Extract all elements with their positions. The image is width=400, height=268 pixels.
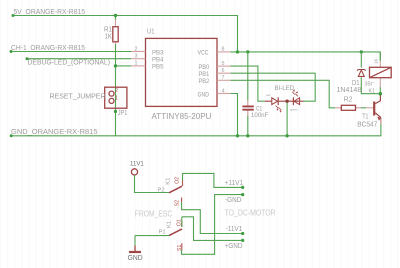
svg-text:green: green <box>290 107 298 111</box>
op-amp U1 ATTINY85-20PU box <box>146 38 218 106</box>
wire S1 to -GND <box>182 195 243 255</box>
transistor T1 BC547 <box>366 95 381 124</box>
svg-text:8: 8 <box>222 47 225 53</box>
svg-text:3: 3 <box>135 54 138 60</box>
wire GND to P1 pole <box>135 236 169 246</box>
wire PB0 to BI-LED left <box>231 66 265 101</box>
svg-text:CH-1_ORANG-RX-R815: CH-1_ORANG-RX-R815 <box>11 43 85 52</box>
resistor R2 <box>335 105 360 110</box>
node CH-1 start dot <box>10 50 13 53</box>
svg-text:O1: O1 <box>176 219 182 226</box>
node DEBUG start dot <box>26 57 29 60</box>
pin 5 PB0 stub <box>217 65 231 67</box>
svg-text:RESET_JUMPER: RESET_JUMPER <box>50 92 107 101</box>
junction reset at 5V rail <box>114 14 117 17</box>
svg-text:S2: S2 <box>174 200 180 206</box>
svg-text:-GND: -GND <box>225 197 241 204</box>
svg-text:BC547: BC547 <box>357 122 377 129</box>
ground symbol GND <box>129 246 141 253</box>
svg-text:GND: GND <box>128 255 143 262</box>
svg-text:BI-LED: BI-LED <box>275 85 295 92</box>
LED green (right) <box>287 89 303 111</box>
svg-text:K1: K1 <box>166 221 172 228</box>
svg-text:1: 1 <box>135 61 138 67</box>
node -11V1 stub dot <box>241 232 244 235</box>
junction reset/pin1 <box>114 64 117 67</box>
switch P2 (relay contact) <box>169 181 183 203</box>
svg-text:5: 5 <box>222 61 225 67</box>
svg-text:-11V1: -11V1 <box>226 226 243 233</box>
svg-text:+GND: +GND <box>225 243 243 250</box>
svg-text:PB4: PB4 <box>152 57 164 64</box>
svg-text:1K: 1K <box>105 31 113 40</box>
wire O1 to +GND <box>182 217 243 241</box>
node 5V start dot <box>12 14 15 17</box>
svg-text:2: 2 <box>135 46 138 52</box>
svg-text:7: 7 <box>222 75 225 81</box>
junction collector/relay node <box>379 92 382 95</box>
wire D1 branch <box>361 52 380 94</box>
wire CH-1 to pin 2 <box>11 51 131 53</box>
svg-text:K1: K1 <box>369 88 376 94</box>
svg-text:U1: U1 <box>147 26 155 35</box>
node GND start dot <box>10 134 13 137</box>
svg-text:PB3: PB3 <box>152 49 164 56</box>
junction GND rail / C1 <box>246 134 249 137</box>
svg-text:11V1: 11V1 <box>130 161 144 168</box>
svg-text:GND_ORANGE-RX-R815: GND_ORANGE-RX-R815 <box>11 127 98 136</box>
wire base net <box>361 107 367 109</box>
svg-text:D1: D1 <box>352 80 360 87</box>
wire GND rail <box>11 124 381 136</box>
svg-text:T1: T1 <box>362 114 368 121</box>
wire O2 to +11V1 <box>183 173 243 187</box>
svg-text:PB5: PB5 <box>152 64 164 71</box>
svg-text:16: 16 <box>374 58 379 64</box>
svg-text:2: 2 <box>115 88 118 94</box>
junction GND rail / pin4 <box>236 134 239 137</box>
pin 4 GND stub <box>217 93 231 95</box>
svg-text:35t⁻: 35t⁻ <box>365 81 375 87</box>
pin 8 VCC stub <box>217 51 231 53</box>
node +11V1 stub dot <box>241 186 244 189</box>
jumper JP1 <box>105 87 127 108</box>
junction BI-LED middle <box>285 100 288 103</box>
svg-text:VCC: VCC <box>198 50 209 57</box>
svg-text:ATTINY85-20PU: ATTINY85-20PU <box>152 112 212 121</box>
svg-text:R2: R2 <box>344 96 353 103</box>
wire 11V1 to P2 pole <box>135 175 170 192</box>
junction D1 bottom / relay / collector <box>379 92 382 95</box>
svg-text:P2: P2 <box>158 187 165 193</box>
node +GND stub dot <box>241 239 244 242</box>
svg-text:4: 4 <box>222 88 225 94</box>
wire C1 net <box>247 52 249 136</box>
svg-text:TO_DC-MOTOR: TO_DC-MOTOR <box>225 208 276 218</box>
wire VCC row <box>231 52 381 61</box>
svg-text:red: red <box>266 93 271 97</box>
svg-text:O2: O2 <box>175 177 181 184</box>
svg-text:5V_ORANGE-RX-R815: 5V_ORANGE-RX-R815 <box>14 7 86 16</box>
pin 2 PB3 stub <box>131 51 146 53</box>
svg-text:PB0: PB0 <box>199 64 210 71</box>
wire pin4 GND to rail <box>231 94 238 136</box>
svg-text:1N4148: 1N4148 <box>337 87 362 94</box>
pin 6 PB1 stub <box>217 72 231 74</box>
junction VCC/5V <box>236 50 239 53</box>
svg-text:S1: S1 <box>177 245 183 251</box>
resistor R1 <box>113 20 118 45</box>
svg-text:GND: GND <box>198 91 210 98</box>
junction GND rail / LED <box>285 134 288 137</box>
junction VCC/C1 <box>246 50 249 53</box>
junction VCC/D1 <box>360 50 363 53</box>
svg-text:6: 6 <box>222 68 225 74</box>
wire PB2 to R2 <box>231 80 336 108</box>
svg-text:FROM_ESC: FROM_ESC <box>135 208 172 218</box>
capacitor C1 <box>242 101 253 116</box>
wire S2 to -11V1 <box>182 202 243 234</box>
svg-text:P1: P1 <box>159 230 166 236</box>
wire PB1 to BI-LED right <box>231 73 316 101</box>
pin 3 PB4 stub <box>131 58 146 60</box>
svg-text:K1: K1 <box>166 178 172 185</box>
wire reset net vertical <box>115 16 117 136</box>
wire reset to pin 1 <box>116 65 132 67</box>
wire 5V rail <box>13 16 238 52</box>
relay K1 coil <box>370 52 392 94</box>
pin 1 PB5 stub <box>131 65 146 67</box>
wire BI-LED middle to GND rail <box>286 103 288 136</box>
svg-text:PB2: PB2 <box>199 78 210 85</box>
wire DEBUG-LED to pin 3 <box>27 58 131 60</box>
switch P1 (relay contact) <box>169 217 182 250</box>
node -GND stub dot <box>241 193 244 196</box>
svg-text:JP1: JP1 <box>118 110 128 117</box>
pin 7 PB2 stub <box>217 79 231 81</box>
pad 11V1 <box>131 169 137 175</box>
svg-text:PB1: PB1 <box>199 71 210 78</box>
diode D1 1N4148 <box>357 70 366 77</box>
LED red (left) <box>265 93 287 113</box>
svg-text:+11V1: +11V1 <box>225 180 243 187</box>
junction jumper pin1 <box>114 110 117 113</box>
svg-text:100nF: 100nF <box>251 112 269 119</box>
svg-text:1: 1 <box>115 95 118 101</box>
